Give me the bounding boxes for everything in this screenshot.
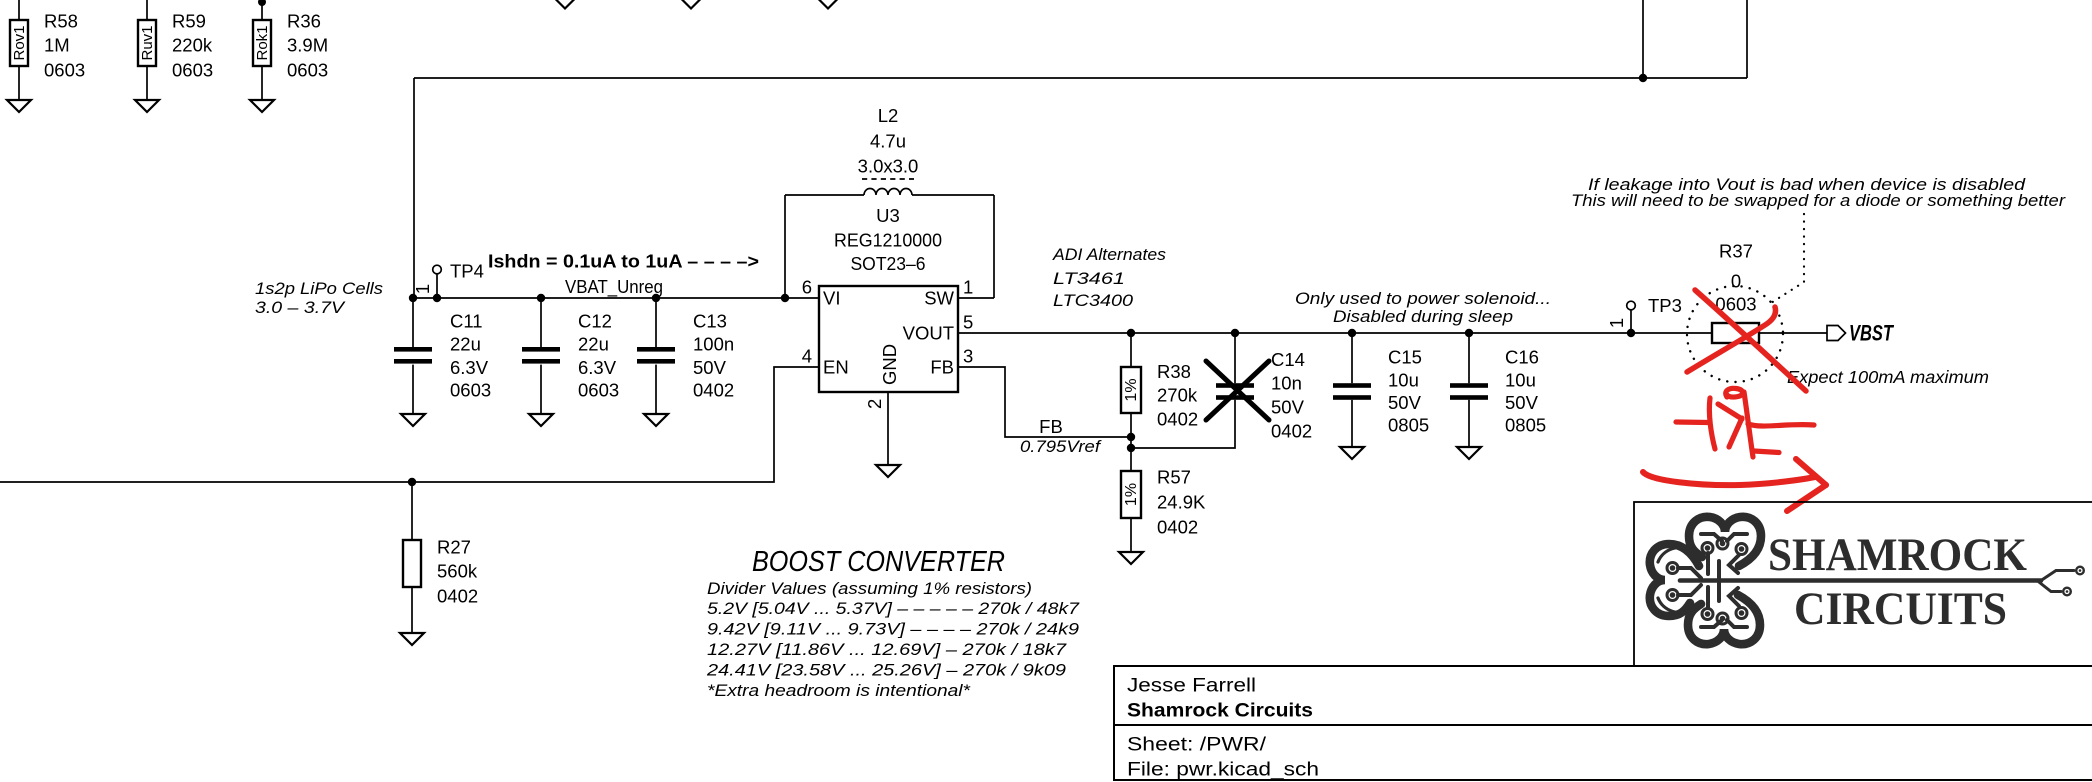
svg-text:3.9M: 3.9M <box>287 35 328 56</box>
svg-text:6.3V: 6.3V <box>450 357 489 378</box>
svg-text:R36: R36 <box>287 11 321 32</box>
wire VBAT_Unreg rail <box>414 297 819 299</box>
svg-text:50V: 50V <box>1388 392 1422 413</box>
svg-text:0805: 0805 <box>1505 415 1546 436</box>
svg-text:0603: 0603 <box>578 380 619 401</box>
svg-text:Rok1: Rok1 <box>254 25 271 60</box>
resistor R38 <box>1121 333 1198 448</box>
svg-text:Sheet: /PWR/: Sheet: /PWR/ <box>1127 735 1267 756</box>
svg-text:1s2p LiPo Cells: 1s2p LiPo Cells <box>255 280 383 298</box>
svg-text:1: 1 <box>1606 318 1627 328</box>
svg-text:1%: 1% <box>1123 483 1140 506</box>
svg-text:270k: 270k <box>1157 385 1198 406</box>
svg-text:0805: 0805 <box>1388 415 1429 436</box>
svg-text:50V: 50V <box>693 357 727 378</box>
capacitor C12 <box>522 298 619 414</box>
ground <box>1457 447 1481 459</box>
svg-text:24.41V [23.58V ... 25.26V] – 2: 24.41V [23.58V ... 25.26V] – 270k / 9k09 <box>706 662 1066 680</box>
wire pin1 SW <box>958 297 994 299</box>
wire top rail <box>414 77 1747 79</box>
svg-text:GND: GND <box>879 344 900 385</box>
junction <box>1231 329 1239 337</box>
ground <box>1119 552 1143 564</box>
ground <box>400 633 424 645</box>
ground (open arrow, cut off at top) <box>819 0 838 9</box>
junction <box>409 294 417 302</box>
resistor R37 <box>1712 241 1759 344</box>
svg-text:Shamrock Circuits: Shamrock Circuits <box>1127 701 1313 722</box>
svg-text:R27: R27 <box>437 537 471 558</box>
svg-text:560k: 560k <box>437 561 478 582</box>
resistor R27 <box>403 482 478 633</box>
svg-text:0603: 0603 <box>172 60 213 81</box>
svg-text:C13: C13 <box>693 311 727 332</box>
svg-text:SOT23–6: SOT23–6 <box>851 253 926 274</box>
svg-text:ADI Alternates: ADI Alternates <box>1052 246 1166 264</box>
svg-text:6.3V: 6.3V <box>578 357 617 378</box>
svg-text:220k: 220k <box>172 35 213 56</box>
red arrow annotation <box>1643 459 1826 511</box>
wire <box>993 195 995 298</box>
svg-text:6: 6 <box>802 277 812 298</box>
red diode sketch <box>1676 388 1814 457</box>
svg-text:SW: SW <box>924 288 954 309</box>
resistor R59 <box>138 0 213 100</box>
junction <box>1627 329 1635 337</box>
dotted leader line <box>1771 214 1804 303</box>
svg-text:VBAT_Unreg: VBAT_Unreg <box>565 276 663 298</box>
svg-text:0402: 0402 <box>1271 421 1312 442</box>
svg-text:4.7u: 4.7u <box>870 131 906 152</box>
svg-text:TP4: TP4 <box>450 261 484 282</box>
svg-text:10u: 10u <box>1388 370 1419 391</box>
svg-text:This will need to be swapped f: This will need to be swapped for a diode… <box>1571 192 2067 210</box>
svg-text:5: 5 <box>963 312 973 333</box>
wire <box>784 195 786 298</box>
wire C14 bottom <box>1131 400 1235 448</box>
svg-text:0603: 0603 <box>450 380 491 401</box>
svg-text:REG1210000: REG1210000 <box>834 230 942 251</box>
svg-text:2: 2 <box>864 399 885 409</box>
svg-text:5.2V [5.04V ... 5.37V] – – – –: 5.2V [5.04V ... 5.37V] – – – – – 270k / … <box>707 600 1080 618</box>
junction R36 top <box>258 0 266 6</box>
svg-text:C15: C15 <box>1388 347 1422 368</box>
svg-text:0: 0 <box>1731 271 1741 292</box>
DNP dotted circle <box>1687 286 1783 382</box>
capacitor C14 (DNP) <box>1216 333 1312 442</box>
wire <box>1746 0 1748 78</box>
note divider values <box>706 580 1080 700</box>
svg-text:1M: 1M <box>44 35 70 56</box>
ground <box>250 100 274 112</box>
svg-text:BOOST CONVERTER: BOOST CONVERTER <box>752 546 1005 578</box>
ground (open arrow, cut off at top) <box>556 0 575 9</box>
svg-text:VBST: VBST <box>1849 321 1894 346</box>
svg-text:10n: 10n <box>1271 373 1302 394</box>
svg-text:0603: 0603 <box>287 60 328 81</box>
svg-text:24.9K: 24.9K <box>1157 492 1206 513</box>
svg-text:Expect 100mA maximum: Expect 100mA maximum <box>1787 367 1989 387</box>
svg-text:10u: 10u <box>1505 370 1536 391</box>
capacitor C15 <box>1333 333 1429 447</box>
note ADI alternates <box>1052 246 1166 310</box>
junction <box>781 294 789 302</box>
ground <box>135 100 159 112</box>
svg-text:0402: 0402 <box>1157 409 1198 430</box>
junction <box>1127 444 1135 452</box>
svg-text:C16: C16 <box>1505 347 1539 368</box>
svg-text:3: 3 <box>963 346 973 367</box>
svg-text:Only used to power solenoid...: Only used to power solenoid... <box>1295 290 1551 308</box>
svg-text:VOUT: VOUT <box>903 323 954 344</box>
junction <box>1127 329 1135 337</box>
svg-text:Rov1: Rov1 <box>11 25 28 60</box>
ground <box>644 414 668 426</box>
note leakage <box>1571 176 2067 210</box>
svg-text:FB: FB <box>1039 416 1063 437</box>
svg-text:U3: U3 <box>876 205 900 226</box>
ground <box>401 414 425 426</box>
svg-text:File: pwr.kicad_sch: File: pwr.kicad_sch <box>1127 760 1319 781</box>
junction <box>1127 433 1135 441</box>
svg-text:CIRCUITS: CIRCUITS <box>1794 583 2007 635</box>
svg-text:Disabled during sleep: Disabled during sleep <box>1333 308 1513 326</box>
capacitor C13 <box>637 298 734 414</box>
logo stem trace <box>1680 567 2084 596</box>
ground <box>1340 447 1364 459</box>
svg-text:22u: 22u <box>450 334 481 355</box>
svg-text:R58: R58 <box>44 11 78 32</box>
IC U3 REG1210000 <box>802 205 974 409</box>
svg-text:C11: C11 <box>450 311 483 332</box>
wire EN <box>0 367 819 482</box>
svg-text:VI: VI <box>823 288 840 309</box>
svg-text:C12: C12 <box>578 311 612 332</box>
ground <box>7 100 31 112</box>
svg-text:12.27V [11.86V ... 12.69V] – 2: 12.27V [11.86V ... 12.69V] – 270k / 18k7 <box>707 641 1067 659</box>
svg-text:L2: L2 <box>878 105 899 126</box>
junction <box>652 294 660 302</box>
svg-text:3.0x3.0: 3.0x3.0 <box>858 156 919 177</box>
wire <box>1759 332 1827 334</box>
svg-text:R37: R37 <box>1719 241 1753 262</box>
inductor L2 <box>785 105 994 195</box>
wire FB <box>958 367 1131 437</box>
svg-text:FB: FB <box>930 357 954 378</box>
DNP cross <box>1206 361 1269 420</box>
svg-text:Ishdn = 0.1uA to 1uA – – – –>: Ishdn = 0.1uA to 1uA – – – –> <box>488 251 759 272</box>
svg-text:0402: 0402 <box>437 586 478 607</box>
svg-text:TP3: TP3 <box>1648 295 1682 316</box>
svg-text:0.795Vref: 0.795Vref <box>1020 438 1103 456</box>
note LiPo cells <box>255 280 383 317</box>
title block frame <box>1114 666 2092 780</box>
svg-text:22u: 22u <box>578 334 609 355</box>
ground (open arrow, cut off at top) <box>682 0 701 9</box>
wire <box>1642 0 1644 78</box>
junction <box>1465 329 1473 337</box>
svg-text:1: 1 <box>412 284 433 294</box>
svg-text:0603: 0603 <box>44 60 85 81</box>
ground U3 GND pin <box>876 392 900 477</box>
svg-text:R38: R38 <box>1157 361 1191 382</box>
svg-text:*Extra headroom is intentional: *Extra headroom is intentional* <box>707 682 971 700</box>
svg-text:1%: 1% <box>1123 378 1140 401</box>
svg-text:9.42V [9.11V ... 9.73V] – – –: 9.42V [9.11V ... 9.73V] – – – – 270k / 2… <box>707 621 1079 639</box>
svg-text:4: 4 <box>802 346 812 367</box>
resistor R58 <box>10 0 85 100</box>
red X over R37 <box>1687 290 1806 391</box>
svg-text:1: 1 <box>963 277 973 298</box>
resistor R57 <box>1121 448 1206 552</box>
svg-text:SHAMROCK: SHAMROCK <box>1768 529 2027 581</box>
svg-text:3.0 – 3.7V: 3.0 – 3.7V <box>255 299 346 317</box>
svg-text:LTC3400: LTC3400 <box>1053 292 1134 310</box>
capacitor C11 <box>394 298 491 414</box>
svg-text:C14: C14 <box>1271 349 1305 370</box>
svg-text:R59: R59 <box>172 11 206 32</box>
wire VOUT rail <box>958 332 1712 334</box>
svg-text:R57: R57 <box>1157 467 1191 488</box>
junction <box>433 294 441 302</box>
svg-text:Ruv1: Ruv1 <box>139 25 156 60</box>
Shamrock logo clover <box>1650 517 1761 644</box>
junction <box>408 478 416 486</box>
resistor R36 <box>253 0 328 100</box>
capacitor C16 <box>1450 333 1546 447</box>
svg-text:100n: 100n <box>693 334 734 355</box>
junction <box>1348 329 1356 337</box>
logo frame <box>1634 502 2092 666</box>
hierarchical label VBST <box>1827 321 1894 346</box>
svg-text:Jesse Farrell: Jesse Farrell <box>1127 676 1256 697</box>
svg-text:Divider Values (assuming 1% re: Divider Values (assuming 1% resistors) <box>707 580 1032 598</box>
svg-text:0402: 0402 <box>693 380 734 401</box>
junction <box>1639 74 1647 82</box>
ground <box>529 414 553 426</box>
test point TP3 <box>1606 295 1682 333</box>
junction <box>537 294 545 302</box>
svg-text:50V: 50V <box>1505 392 1539 413</box>
svg-text:0402: 0402 <box>1157 517 1198 538</box>
svg-text:EN: EN <box>823 357 849 378</box>
note solenoid <box>1295 290 1551 326</box>
svg-text:LT3461: LT3461 <box>1053 270 1125 288</box>
wire <box>413 78 415 298</box>
svg-text:50V: 50V <box>1271 397 1305 418</box>
test point TP4 <box>412 261 484 299</box>
